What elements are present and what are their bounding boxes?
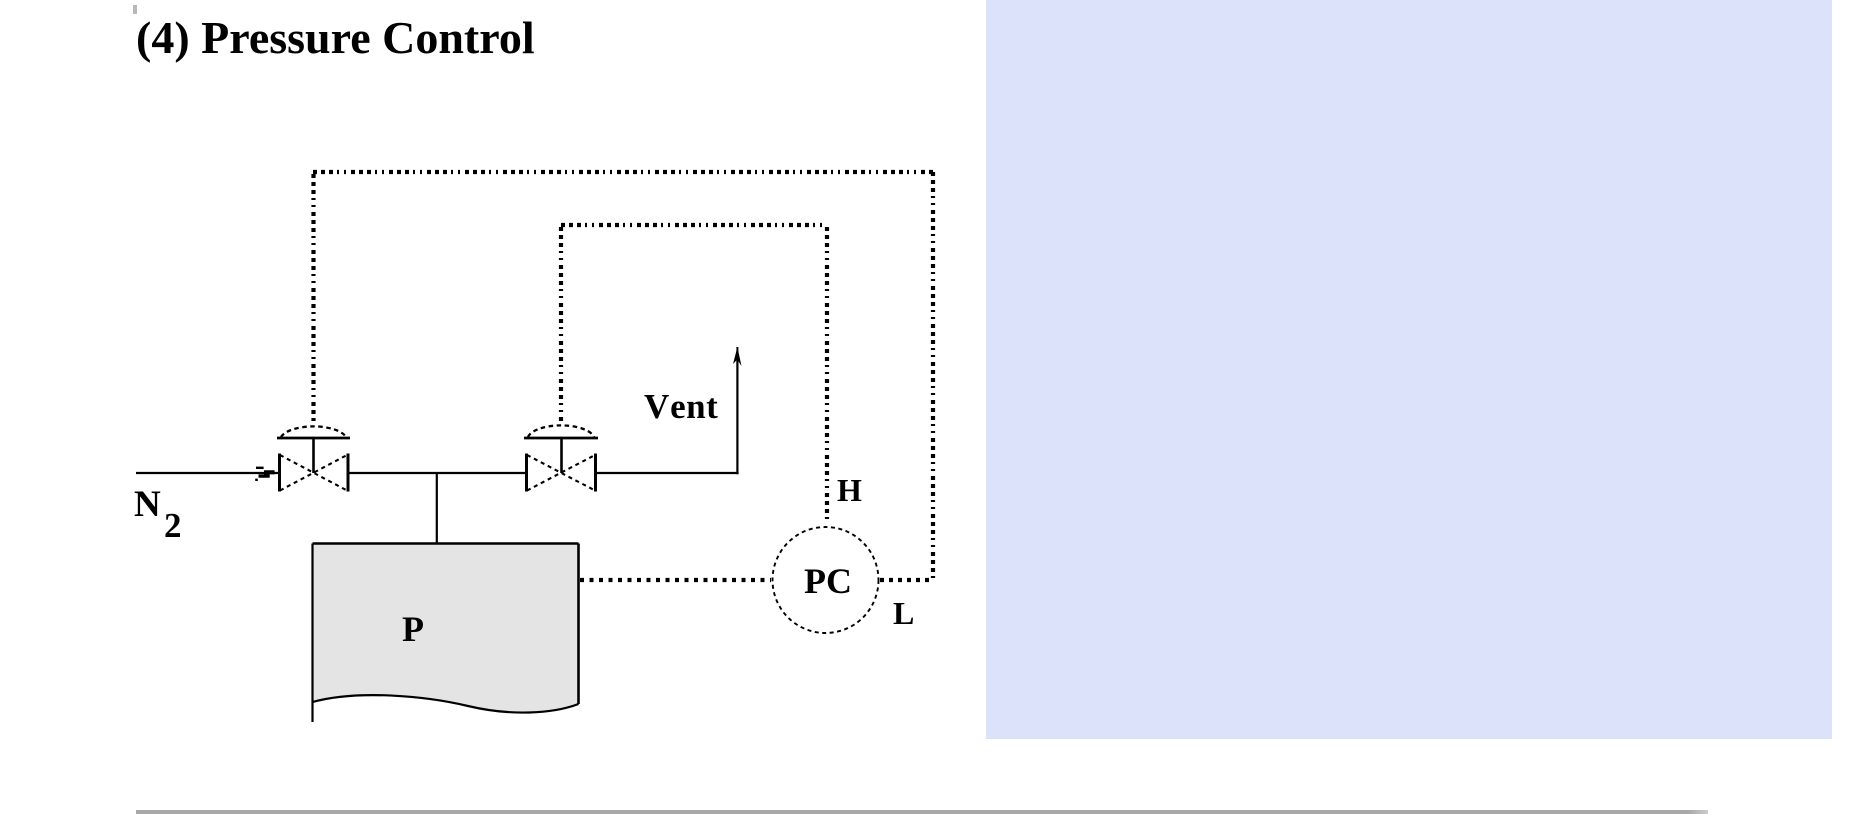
actuator dome CV2 (524, 425, 598, 473)
blue side panel (986, 0, 1832, 739)
actuator dome CV1 (277, 426, 350, 473)
wire: pipe between valves (349, 472, 527, 474)
svg-text:2: 2 (164, 506, 182, 545)
flow arrow on inlet pipe (255, 467, 274, 481)
svg-text:PC: PC (804, 561, 852, 601)
label Vent (644, 387, 718, 426)
wire: junction drop to vessel P (436, 473, 438, 544)
signal line: outer loop left vertical to valve CV1 actuator (311, 174, 315, 421)
label PC (804, 561, 852, 601)
label P (402, 609, 424, 649)
label L (893, 595, 914, 631)
wire: N2 inlet pipe (136, 472, 279, 474)
wire: vent riser vertical (736, 352, 738, 474)
signal line: inner loop top (561, 223, 827, 227)
label N2 (134, 484, 182, 545)
signal line: outer loop right vertical (931, 172, 935, 580)
controller PC circle (773, 527, 879, 633)
signal line: PC to outer loop (bottom right) (880, 578, 933, 582)
control valve CV1 body (280, 454, 349, 492)
signal line: inner loop left vertical to valve CV2 actuator (559, 227, 563, 421)
svg-text:Vent: Vent (644, 387, 718, 426)
vessel P body (313, 544, 579, 723)
label H (837, 472, 862, 508)
bottom horizontal rule (136, 810, 1708, 814)
vent arrowhead (733, 347, 742, 366)
signal line: inner loop right vertical to controller PC (825, 227, 829, 524)
signal line: outer loop top (313, 170, 933, 174)
svg-text:H: H (837, 472, 862, 508)
wire: pipe from valve CV2 to vent riser (596, 472, 739, 474)
svg-text:L: L (893, 595, 914, 631)
cursor artifact (133, 5, 137, 14)
control valve CV2 body (527, 454, 596, 492)
signal line: vessel P to controller PC (580, 578, 771, 582)
title text (136, 11, 535, 64)
svg-text:P: P (402, 609, 424, 649)
svg-text:N: N (134, 484, 161, 525)
